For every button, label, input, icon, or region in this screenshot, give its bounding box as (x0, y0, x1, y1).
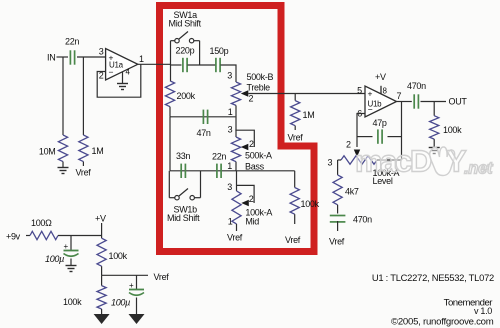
svg-text:3: 3 (99, 47, 104, 57)
svg-text:3: 3 (328, 158, 333, 168)
wire mid row to 100k (236, 170, 295, 172)
capacitor 33n (176, 151, 190, 178)
wire 100k to Vref junction (101, 266, 103, 275)
svg-text:Mid: Mid (245, 217, 259, 227)
capacitor 47n (197, 110, 211, 138)
wire 220p to 150p (188, 64, 216, 66)
wire 1M to Vref (294, 126, 296, 130)
svg-text:macD: macD (355, 144, 432, 179)
red highlight outline around tone stack (160, 6, 315, 252)
svg-text:Treble: Treble (247, 83, 271, 93)
svg-text:470n: 470n (353, 215, 372, 225)
ground triangle under second 100u (129, 314, 145, 324)
svg-text:3: 3 (228, 125, 233, 135)
resistor 100k divider top (97, 238, 128, 266)
svg-text:2: 2 (346, 140, 351, 150)
wire 470n to Vref (337, 221, 339, 231)
svg-text:3: 3 (227, 71, 232, 81)
svg-text:100µ: 100µ (45, 254, 64, 264)
svg-text:U1b: U1b (368, 100, 383, 109)
wire U1a output to tone stack (138, 63, 171, 65)
op-amp U1b (357, 86, 401, 119)
svg-text:22n: 22n (212, 152, 226, 162)
ground triangle under divider (94, 314, 110, 324)
wire down to R 1M bias (294, 94, 296, 101)
wire junction down to R 1M input bias (82, 57, 84, 135)
wire 4k7 to 470n (337, 205, 339, 214)
wire treble wiper to U1b pin5 (248, 93, 365, 95)
wire second 100u to ground (136, 298, 138, 315)
svg-text:220p: 220p (176, 46, 195, 56)
svg-text:Vref: Vref (227, 233, 243, 243)
svg-text:500k-A: 500k-A (245, 151, 272, 161)
wire 100ohm to +V node (58, 235, 102, 237)
wire rail 200k to 47n row (169, 107, 171, 117)
svg-text:Vref: Vref (76, 168, 92, 178)
capacitor 47p feedback (357, 118, 402, 144)
pot 100k-A Level (328, 140, 402, 187)
svg-text:47n: 47n (197, 128, 211, 138)
resistor 10M (39, 135, 68, 162)
wire 33n/22n row (170, 170, 236, 172)
wire bass wiper loop (235, 130, 254, 147)
svg-text:33n: 33n (176, 151, 190, 161)
svg-text:+: + (129, 281, 134, 290)
svg-text:Vref: Vref (154, 272, 170, 282)
wire 470n to OUT (421, 101, 447, 103)
resistor 100k tone load (290, 188, 320, 215)
resistor 200k (165, 81, 195, 107)
svg-text:+9v: +9v (6, 232, 21, 242)
svg-text:Mid Shift: Mid Shift (169, 19, 202, 29)
svg-text:22n: 22n (65, 37, 79, 47)
svg-text:100k: 100k (443, 125, 462, 135)
svg-text:v 1.0: v 1.0 (474, 306, 492, 316)
svg-text:+V: +V (375, 72, 386, 82)
svg-text:100k: 100k (301, 199, 320, 209)
wire 100k load to ground (433, 139, 435, 147)
svg-text:Bass: Bass (245, 162, 265, 172)
wire SW1a right down to 220p/150p node (199, 41, 201, 65)
wire mid pin1 to Vref (236, 224, 238, 231)
capacitor 470n output (407, 81, 426, 109)
watermark runoffgroove ghost logo (355, 144, 494, 179)
wire bass pin1 to 33n/22n row (235, 162, 237, 171)
resistor 100ohm (30, 218, 58, 240)
wire C 22n to U1a pin3 (77, 56, 106, 58)
svg-text:2: 2 (249, 194, 254, 204)
wire 1M to Vref (82, 162, 84, 166)
wire +V down through junction to 100k (101, 223, 103, 238)
svg-text:IN: IN (47, 53, 55, 63)
wire down to mid pot pin3 (236, 171, 238, 191)
wire U1a feedback pin1 to pin2 (97, 64, 141, 97)
svg-text:.net: .net (464, 160, 494, 178)
svg-text:1: 1 (228, 217, 233, 227)
ground under U1a (117, 83, 128, 85)
wire U1a output across to 220p (171, 64, 182, 66)
svg-text:U1 : TLC2272, NE5532, TL072: U1 : TLC2272, NE5532, TL072 (372, 272, 494, 283)
resistor 100k divider bottom (63, 286, 106, 309)
wire U1b output (397, 101, 412, 103)
wire junction down to R 10M (62, 57, 64, 135)
svg-text:100k: 100k (109, 251, 128, 261)
svg-text:47p: 47p (373, 118, 387, 128)
svg-text:10M: 10M (39, 147, 56, 157)
capacitor 22n (65, 37, 79, 65)
svg-text:Vref: Vref (288, 133, 304, 143)
svg-text:2: 2 (249, 94, 254, 104)
resistor 1M bias (291, 101, 315, 126)
wire 100k to Vref (294, 214, 296, 224)
svg-text:©2005, runoffgroove.com: ©2005, runoffgroove.com (391, 317, 494, 328)
wire SW1a left down to main rail (170, 41, 172, 65)
op-amp U1a (99, 47, 144, 81)
resistor 100k output load (430, 116, 463, 139)
capacitor 100u vref (111, 281, 144, 308)
svg-text:1M: 1M (92, 146, 104, 156)
pot 500k-B Treble (227, 71, 273, 118)
wire U1b feedback output down to level pot (401, 102, 403, 161)
svg-text:2: 2 (249, 139, 254, 149)
wire divider junction (101, 275, 103, 285)
wire mid wiper loop (237, 185, 255, 203)
wire 10M to ground (62, 162, 64, 167)
svg-text:U1a: U1a (109, 61, 124, 70)
wire down to 100k output load (433, 102, 435, 116)
wire 150p to treble pot pin3 (221, 65, 237, 82)
pot 100k-A Mid (227, 182, 272, 227)
capacitor 100u filter (45, 242, 79, 264)
svg-text:+: + (368, 89, 373, 99)
svg-text:500k-B: 500k-B (247, 72, 274, 82)
svg-text:Vref: Vref (285, 235, 301, 245)
resistor 1M input bias (79, 135, 104, 162)
ground under 10M (58, 167, 69, 169)
wire U1b pin6 left and down (357, 114, 365, 148)
svg-text:+V: +V (95, 214, 106, 224)
svg-text:100Ω: 100Ω (31, 218, 52, 228)
wire down to 100k tone load (294, 171, 296, 188)
wire 47n row (170, 116, 235, 118)
svg-text:1: 1 (228, 107, 233, 117)
wire level pot pin3 down to 4k7 (337, 160, 339, 175)
wire 100u to ground (70, 259, 72, 266)
svg-text:100µ: 100µ (111, 298, 130, 308)
svg-text:1M: 1M (303, 110, 315, 120)
capacitor 22n tone (212, 152, 226, 179)
wire 100k bottom to ground (101, 309, 103, 314)
svg-text:5: 5 (357, 86, 362, 96)
wire rail top: output node to 200k (170, 65, 172, 81)
svg-text:1: 1 (227, 161, 232, 171)
wire IN to C 22n (57, 56, 69, 58)
wire U1b pin8 to +V (380, 86, 382, 94)
node +V above U1b (375, 72, 388, 96)
pot 500k-A Bass (227, 125, 272, 172)
svg-text:4k7: 4k7 (345, 187, 359, 197)
capacitor 470n feedback (330, 215, 372, 225)
svg-text:1: 1 (139, 54, 144, 64)
switch SW1b Mid Shift (167, 171, 201, 223)
wire junction down to first 100u (70, 236, 72, 251)
svg-text:Vref: Vref (329, 237, 345, 247)
wire treble pin1 down to bass pin3 (235, 105, 237, 137)
svg-text:7: 7 (397, 91, 402, 101)
resistor 4k7 (333, 175, 359, 205)
svg-text:3: 3 (227, 182, 232, 192)
wire rail 47n row to 33n row (169, 117, 171, 171)
ground under output 100k (429, 147, 440, 149)
svg-text:150p: 150p (210, 46, 229, 56)
svg-text:100k: 100k (63, 297, 82, 307)
switch SW1a Mid Shift (169, 10, 202, 43)
capacitor 150p (210, 46, 229, 72)
svg-text:+: + (64, 242, 69, 251)
wire down to second 100u (136, 275, 138, 289)
svg-text:200k: 200k (177, 91, 196, 101)
svg-text:470n: 470n (407, 81, 426, 91)
svg-text:Mid Shift: Mid Shift (167, 213, 200, 223)
ground under first 100u (66, 265, 77, 267)
wire Vref junction right (102, 274, 148, 276)
svg-text:OUT: OUT (449, 97, 468, 107)
wire U1a pin4 to ground (122, 72, 124, 83)
capacitor 220p (176, 46, 195, 73)
wire +9v to 100ohm (26, 235, 30, 237)
